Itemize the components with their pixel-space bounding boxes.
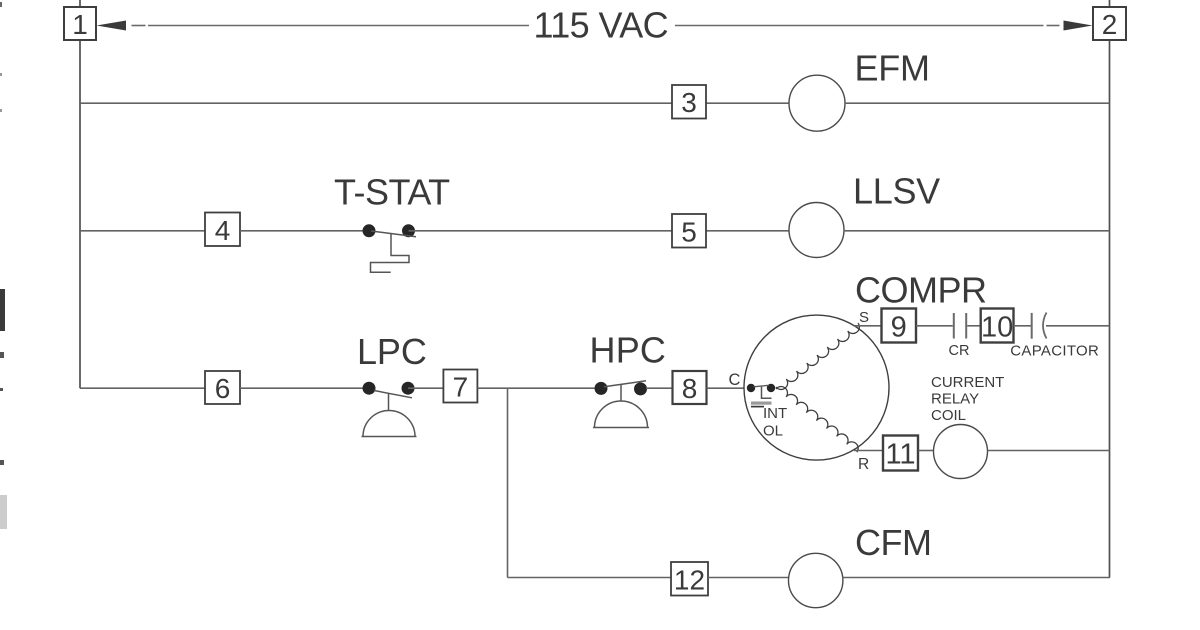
svg-text:3: 3 [681,87,697,118]
svg-text:CURRENT: CURRENT [931,374,1004,391]
svg-text:RELAY: RELAY [931,391,979,408]
svg-text:C: C [729,371,741,389]
svg-text:CFM: CFM [855,522,931,563]
svg-text:5: 5 [681,217,697,248]
svg-text:LLSV: LLSV [853,171,940,212]
svg-text:12: 12 [674,565,705,596]
svg-text:S: S [859,309,869,326]
svg-text:R: R [858,456,869,473]
svg-text:7: 7 [453,372,469,403]
svg-text:EFM: EFM [855,48,930,89]
svg-text:HPC: HPC [590,330,667,371]
svg-text:CAPACITOR: CAPACITOR [1010,343,1099,360]
svg-text:CR: CR [949,343,970,359]
svg-text:10: 10 [981,312,1013,344]
svg-text:COIL: COIL [931,407,966,424]
svg-text:4: 4 [215,215,231,246]
svg-text:OL: OL [763,423,783,440]
svg-text:8: 8 [682,373,698,404]
svg-text:1: 1 [72,9,88,40]
svg-text:11: 11 [885,439,915,471]
svg-text:INT: INT [763,405,787,422]
svg-text:6: 6 [215,373,231,404]
svg-text:2: 2 [1102,9,1118,40]
svg-text:T-STAT: T-STAT [334,172,450,213]
svg-text:115 VAC: 115 VAC [534,5,669,46]
svg-text:9: 9 [891,312,907,344]
svg-text:LPC: LPC [357,331,427,372]
svg-text:COMPR: COMPR [855,270,987,311]
